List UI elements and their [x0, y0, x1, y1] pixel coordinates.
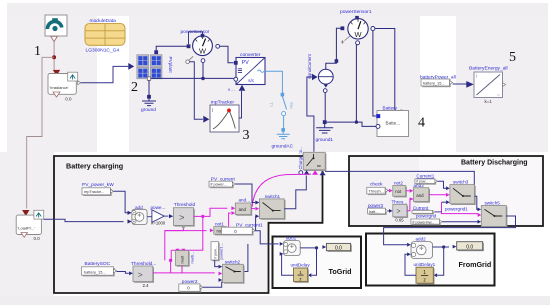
powerSensor right port: [216, 44, 220, 48]
svg-text:'irradiance': 'irradiance': [50, 85, 69, 90]
svg-text:signalCurrent: signalCurrent: [307, 53, 312, 79]
PVplant top connector: [154, 50, 158, 54]
wire switch2 out joining same net: [243, 244, 248, 272]
wire ground rail to battery: [327, 122, 376, 126]
svg-text:>: >: [397, 209, 401, 216]
svg-text:if power...: if power...: [211, 183, 227, 187]
svg-text:Charge_to...: Charge_to...: [298, 146, 303, 169]
svg-text:FromGrid: FromGrid: [459, 260, 492, 269]
svg-text:1: 1: [34, 44, 41, 59]
svg-text:unitDelay1: unitDelay1: [414, 262, 436, 267]
svg-text:multi...: multi...: [190, 252, 195, 264]
wire PVplant bottom to ground: [148, 80, 150, 95]
svg-text:add1: add1: [286, 236, 297, 241]
wire ps1 bottom to ground rail: [356, 45, 357, 121]
arrow into irradiance block: [53, 70, 60, 76]
ToGrid display 0.0: [328, 245, 352, 252]
svg-text:PVplant: PVplant: [168, 57, 173, 74]
svg-text:and: and: [239, 207, 247, 212]
magenta bus Threshold1 out to switch2.u2: [153, 272, 215, 274]
battery plus port: [376, 114, 380, 118]
svg-text:and...: and...: [239, 198, 251, 203]
svg-text:if pow...: if pow...: [416, 180, 428, 184]
svg-text:k=1: k=1: [485, 99, 493, 104]
svg-text:unitDelay: unitDelay: [291, 263, 311, 268]
wire and3 to switch3.u2: [429, 194, 446, 196]
magenta net: Threshold out to and1.u1 and down to mult: [194, 208, 228, 216]
svg-text:mpTracke...: mpTracke...: [84, 189, 104, 194]
wire into switch3.u3: [441, 201, 446, 203]
svg-text:add2: add2: [416, 237, 427, 242]
wire power1 to switch2.u1: [215, 260, 219, 267]
wire batteryPower to integrator: [453, 83, 467, 85]
wire switch3 out down to switch5.u1: [475, 196, 478, 209]
wire powerSensor voltage tap: [202, 63, 204, 79]
svg-text:Current: Current: [413, 205, 429, 210]
weaDat weather data block: [45, 15, 67, 36]
wire gain to Threshold: [164, 215, 168, 217]
PVplant module array: [137, 55, 149, 66]
svg-text:0.0: 0.0: [34, 236, 41, 241]
wire switch5 out to FromGrid: [384, 216, 516, 245]
svg-text:Thres...: Thres...: [392, 200, 408, 205]
svg-text:0.0: 0.0: [466, 244, 473, 250]
wire junction down to unitDelay: [312, 248, 317, 275]
svg-text:Battery charging: Battery charging: [66, 162, 123, 171]
powerSensor nv port: [201, 59, 205, 63]
background tint bottom strip: [0, 296, 550, 305]
wire PV_current1 to ToGrid add1.u1: [255, 231, 278, 244]
FromGrid display 0.0: [458, 243, 484, 251]
mult output down to magenta bus: [181, 266, 183, 273]
svg-text:2.4: 2.4: [143, 283, 150, 288]
svg-text:'LoadPr...': 'LoadPr...': [18, 226, 36, 231]
svg-text:ToGrid: ToGrid: [329, 267, 352, 276]
converter bottom ref arrow + label: [239, 85, 246, 91]
Charge_tot u2 arrow: [312, 170, 318, 175]
signalCurrent control arrow: [312, 74, 318, 80]
svg-text:not: not: [395, 189, 402, 194]
svg-text:check: check: [370, 182, 383, 188]
powerSensor left port: [187, 44, 191, 48]
wire add1 out to display/junction: [300, 247, 316, 249]
svg-text:moduleData: moduleData: [90, 18, 117, 24]
wire AC to groundAC: [283, 116, 285, 129]
svg-text:groundAC: groundAC: [272, 144, 294, 150]
node on AC line: [281, 93, 285, 97]
wire ps1 right port down to battery: [373, 31, 376, 117]
magenta curve and1 out to Charge_tot.u2: [252, 174, 311, 207]
irradiance mini plant icon: [68, 72, 78, 81]
magenta to switch5.u2: [442, 202, 478, 215]
battery minus port: [376, 124, 380, 128]
Charge_tot side port: [299, 171, 303, 175]
background tint top band: [7, 3, 548, 16]
mppTracker output wire up to converter: [239, 92, 242, 119]
wire converter AC output: [265, 71, 282, 96]
svg-text:powerSensor1: powerSensor1: [340, 9, 372, 15]
converter dc_p port: [234, 61, 238, 65]
svg-text:BatterySOC: BatterySOC: [85, 261, 111, 267]
wire Current1 to switch3.u1: [437, 181, 446, 188]
power1 vertical tag: [212, 243, 220, 261]
unitDelay loop to add1.u2: [282, 254, 294, 275]
svg-text:PV: PV: [242, 60, 249, 66]
svg-text:not2: not2: [394, 180, 403, 185]
svg-text:k=1000: k=1000: [151, 221, 166, 226]
converter dc_n port: [234, 77, 238, 81]
svg-text:>: >: [179, 213, 185, 224]
svg-text:ground: ground: [141, 107, 156, 113]
svg-text:>: >: [138, 269, 143, 279]
junction on that wire: [335, 59, 339, 63]
svg-text:Batte...: Batte...: [386, 121, 401, 126]
background tint central column: [129, 16, 420, 152]
svg-text:L1: L1: [270, 102, 274, 106]
mppTracker peak red dot: [227, 109, 231, 113]
mult block (rotated): [177, 252, 190, 267]
panel Battery charging (L-shaped): [54, 156, 323, 293]
wire signalCurrent top to powerSensor1 left: [326, 28, 341, 69]
wire switch1 out to Charge_tot.u1: [284, 176, 306, 209]
junction ground rail: [355, 120, 358, 123]
wire weaBus to Load (long left path): [27, 57, 54, 208]
wire if powerinv to switch5.u3: [442, 221, 477, 223]
wire PV_power to add.u1: [114, 191, 128, 213]
background tint right column: [456, 16, 548, 152]
wire PVplant top to powerSensor: [156, 46, 186, 52]
wire add to gain: [147, 216, 152, 218]
powerSensor pv port (circle + stub): [189, 56, 193, 60]
panel ToGrid: [273, 237, 362, 289]
svg-text:powergrid: powergrid: [416, 213, 437, 218]
svg-text:mult: mult: [180, 255, 185, 263]
svg-text:0.0: 0.0: [335, 245, 342, 251]
svg-text:Battery_...: Battery_...: [383, 105, 404, 110]
powerSensor top port + stub: [189, 32, 203, 45]
wire Load to add.u2: [44, 219, 124, 221]
background tint left column: [7, 16, 97, 152]
powerSensor1 bottom port: [356, 41, 360, 45]
wire ps1 right port detour to battery: [375, 29, 395, 115]
svg-text:5: 5: [509, 50, 516, 65]
wire and1 out to switch1.u2: [251, 208, 255, 210]
svg-text:and: and: [416, 193, 424, 198]
powerSensor1 left port: [341, 26, 345, 30]
svg-text:PV_power_kW: PV_power_kW: [82, 182, 114, 188]
magenta net: Threshold bottom via not1: [165, 228, 184, 260]
irradiance block: [48, 74, 76, 95]
AC switch blade: [282, 96, 286, 109]
wire switch3 output to Charge_tot u3 (long): [325, 171, 474, 196]
svg-text:power3: power3: [368, 203, 384, 208]
svg-text:powergrid1: powergrid1: [445, 206, 468, 211]
svg-text:Thresh...: Thresh...: [369, 189, 384, 194]
weaBus connector below weaDat: [51, 36, 58, 41]
Load mini plant icon: [34, 210, 44, 219]
powerSensor1 right port: [371, 27, 375, 31]
wire not2 to and3.u1: [406, 190, 410, 192]
svg-text:0.0: 0.0: [65, 97, 72, 102]
AC switch contact: [282, 112, 286, 116]
ground1: [323, 120, 327, 124]
svg-text:switch3: switch3: [453, 180, 469, 185]
if powerinv tag: [412, 220, 441, 225]
svg-text:if pow...: if pow...: [214, 246, 218, 258]
svg-text:0.65: 0.65: [395, 217, 404, 222]
PVplant bottom connector: [147, 77, 150, 80]
svg-text:4: 4: [418, 116, 425, 131]
svg-text:power1...: power1...: [218, 243, 223, 259]
svg-text:LG300N1C_G4: LG300N1C_G4: [86, 48, 120, 54]
svg-text:Current1: Current1: [416, 174, 434, 179]
Charge_tot switch block: [304, 154, 326, 172]
wire power2 to switch2.u3: [203, 282, 222, 288]
powerSensor1 pv stub + plus: [345, 36, 351, 41]
svg-text:W: W: [355, 30, 362, 39]
wire powerSensor signal to mppTracker: [189, 62, 202, 119]
wire DC lower rail: [151, 77, 234, 79]
svg-text:switch5: switch5: [485, 201, 501, 206]
svg-text:if powerinw...: if powerinw...: [413, 220, 435, 224]
svg-text:3: 3: [243, 128, 250, 143]
Load block (bottom-left): [16, 215, 41, 234]
panel Battery Discharging: [349, 156, 543, 226]
wire irradiance to PVplant: [81, 66, 128, 82]
svg-text:Battery Discharging: Battery Discharging: [461, 159, 528, 166]
svg-text:rms: rms: [290, 102, 294, 108]
wire powerSensor to converter: [220, 46, 234, 63]
svg-text:ground1: ground1: [316, 137, 334, 143]
powerSensor1 top port: [355, 16, 359, 20]
wire BatterySOC to Threshold1: [117, 272, 129, 274]
wire PV_current1 up to switch1.u3: [254, 216, 256, 230]
wire weaBus down to junction: [53, 42, 55, 70]
svg-text:2: 2: [131, 80, 138, 95]
svg-text:battery_15...: battery_15...: [84, 269, 106, 274]
wire junction down to unitDelay1: [437, 247, 444, 275]
svg-text:s/c: s/c: [248, 78, 255, 83]
wire not1 to and1.u2: [227, 213, 231, 230]
wire control from Charge_tot up to signalCurrent: [307, 77, 314, 152]
svg-text:switch1: switch1: [265, 194, 281, 199]
svg-text:v ...: v ...: [228, 87, 235, 92]
wire signalCurrent to ground1: [324, 93, 326, 121]
svg-text:BatteryEnergy_all: BatteryEnergy_all: [469, 66, 508, 72]
wire Thres out to and3.u2: [407, 199, 413, 211]
panel FromGrid: [366, 234, 495, 286]
groundAC symbol: [282, 132, 284, 135]
signalCurrent bottom arrow: [324, 84, 328, 87]
svg-text:batt...: batt...: [369, 210, 379, 214]
svg-text:battery_15...: battery_15...: [423, 80, 445, 85]
wire add2 out to display/junction: [433, 246, 444, 248]
svg-text:not1: not1: [215, 222, 224, 227]
signalCurrent bottom port: [323, 89, 327, 93]
junction weaBus node: [52, 55, 56, 59]
background tint bottom-left: [0, 152, 54, 297]
Charge_tot u1 arrow: [304, 170, 310, 175]
arrow into Load block: [22, 210, 29, 216]
ground (PV): [147, 95, 151, 99]
wire PV_current to switch1.u1: [235, 184, 255, 203]
svg-text:powe...: powe...: [151, 205, 166, 210]
svg-text:switch2: switch2: [225, 260, 241, 265]
unitDelay1 loop to add2.u2: [405, 254, 416, 275]
svg-text:W: W: [199, 47, 206, 56]
junction DC rail: [201, 77, 205, 81]
